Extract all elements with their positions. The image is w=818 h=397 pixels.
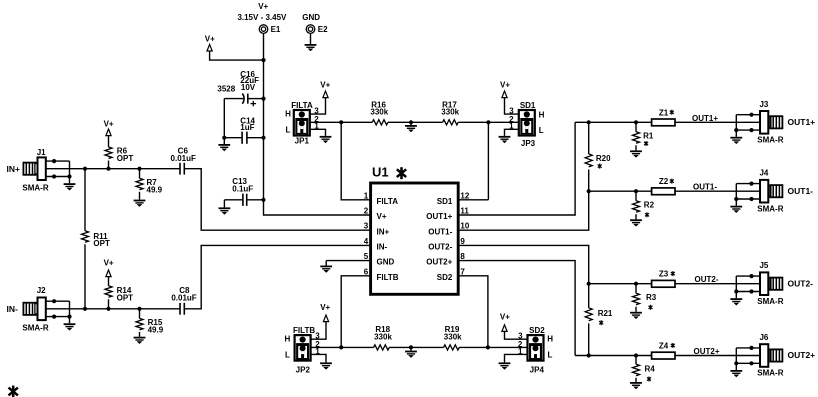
node R6 tap line 1 [106, 167, 110, 171]
wire FILTA node down to chip pin 1 [341, 122, 370, 200]
svg-text:Z2: Z2 [659, 177, 669, 186]
asterisk beside U1 [397, 167, 406, 179]
svg-text:V+: V+ [104, 119, 114, 128]
svg-text:V+: V+ [258, 2, 268, 11]
impedance Z1 [652, 119, 675, 126]
svg-text:3528: 3528 [217, 85, 235, 94]
capacitor C13 [224, 194, 263, 206]
ground below R2 [630, 220, 642, 226]
power symbol V+ above R6 [106, 129, 111, 136]
svg-text:11: 11 [460, 207, 469, 216]
svg-text:SMA-R: SMA-R [757, 369, 783, 378]
ground below JP1 pin 1 [320, 137, 332, 143]
capacitor C14 [224, 132, 263, 144]
resistor R1 [635, 122, 637, 150]
asterisk R3 [649, 305, 653, 310]
svg-text:SD1: SD1 [520, 101, 536, 110]
svg-text:R3: R3 [646, 293, 657, 302]
svg-text:2: 2 [364, 207, 369, 216]
svg-text:V+: V+ [205, 34, 215, 43]
svg-text:0.01uF: 0.01uF [171, 154, 196, 163]
svg-text:FILTB: FILTB [377, 273, 399, 282]
svg-text:OUT2-: OUT2- [428, 243, 452, 252]
resistor R17 [443, 120, 459, 125]
terminal E1 [259, 25, 268, 34]
node R3 top [634, 282, 638, 286]
node SD1 [486, 120, 490, 124]
asterisk R4 [647, 377, 651, 382]
svg-text:L: L [539, 126, 544, 135]
node mid ground tap top row [409, 120, 413, 124]
asterisk Z4 [671, 343, 675, 348]
svg-text:9: 9 [460, 237, 465, 246]
resistor R11 [84, 169, 86, 309]
wire V+ rail from E1 down to chip pin 2 [264, 33, 371, 215]
node R11 tap line 2 [83, 307, 87, 311]
svg-text:JP4: JP4 [530, 365, 545, 374]
node R14 tap line 2 [106, 307, 110, 311]
svg-text:R20: R20 [596, 154, 611, 163]
wire R16 to mid ground tap [388, 121, 411, 123]
svg-text:JP1: JP1 [295, 137, 310, 146]
jumper JP4 (mirrored) [528, 335, 544, 361]
ground below C16/C14 branch [218, 145, 230, 151]
connector J1 [23, 157, 75, 190]
svg-text:SD2: SD2 [437, 273, 453, 282]
svg-text:SMA-R: SMA-R [757, 135, 783, 144]
wire JP1 pin 3 to V+ [310, 98, 326, 114]
svg-text:OUT1-: OUT1- [788, 186, 814, 196]
power symbol V+ feeding rail [207, 44, 212, 51]
wire ground tap to R17 [411, 121, 443, 123]
svg-text:J2: J2 [37, 286, 46, 295]
wire OUT1- row [589, 190, 760, 192]
ground below JP4 pin 1 [499, 363, 511, 369]
svg-text:R21: R21 [598, 309, 613, 318]
power symbol V+ above JP1 [323, 91, 328, 98]
power symbol V+ above JP3 [502, 91, 507, 98]
svg-text:JP3: JP3 [521, 139, 536, 148]
ground at pin 5 [320, 266, 332, 272]
wire JP4 pin 2 to SD2 node [488, 346, 528, 348]
wire E2 to ground [310, 33, 312, 44]
ground between R16 R17 [405, 126, 417, 132]
asterisk R1 [644, 141, 648, 146]
svg-text:7: 7 [460, 267, 465, 276]
asterisk R2 [645, 212, 649, 217]
svg-text:OUT1+: OUT1+ [788, 117, 816, 127]
svg-text:3: 3 [364, 222, 369, 231]
svg-text:10V: 10V [241, 83, 256, 92]
svg-text:4: 4 [364, 237, 369, 246]
wire chip pin 10 up to OUT1- row [458, 191, 589, 230]
svg-text:E2: E2 [318, 25, 328, 34]
svg-text:V+: V+ [500, 81, 510, 90]
wire OUT2- row [589, 283, 760, 285]
resistor R3 [635, 284, 637, 312]
resistor R6 [108, 136, 110, 169]
node R2 top [634, 189, 638, 193]
resistor R21 [588, 284, 590, 356]
impedance Z2 [652, 188, 675, 195]
svg-text:U1: U1 [372, 164, 389, 179]
svg-text:1: 1 [364, 191, 369, 200]
wire SD1 node down to chip pin 12 [458, 122, 488, 200]
op-amp U1 body [371, 183, 459, 294]
svg-text:OPT: OPT [117, 154, 134, 163]
power symbol V+ above R14 [106, 270, 111, 277]
resistor R19 [444, 345, 460, 350]
wire FILTB node to R18 [341, 346, 373, 348]
wire JP3 pin 1 to ground [505, 129, 519, 136]
svg-text:OUT2+: OUT2+ [693, 347, 719, 356]
capacitor C8 [180, 303, 184, 315]
svg-text:8: 8 [460, 252, 465, 261]
node C14 left branch [222, 136, 226, 140]
jumper JP1 [294, 110, 310, 136]
capacitor C6 [180, 163, 184, 175]
svg-text:6: 6 [364, 267, 369, 276]
svg-text:SMA-R: SMA-R [757, 297, 783, 306]
power symbol V+ above JP2 [323, 315, 328, 322]
svg-text:J6: J6 [759, 333, 768, 342]
impedance Z3 [652, 280, 675, 287]
wire chip pin 8 down to OUT2+ row [458, 261, 575, 356]
resistor R18 [374, 345, 390, 350]
wire JP4 pin 3 to V+ [505, 332, 528, 339]
node C13 at V+ rail [261, 198, 265, 202]
svg-text:SD2: SD2 [529, 326, 545, 335]
svg-text:J3: J3 [759, 100, 768, 109]
ground below R3 [630, 313, 642, 319]
svg-text:IN-: IN- [7, 304, 19, 314]
node FILTA [339, 120, 343, 124]
asterisk Z3 [671, 271, 675, 276]
svg-text:GND: GND [377, 258, 395, 267]
svg-text:GND: GND [302, 13, 320, 22]
node SD2 [486, 345, 490, 349]
capacitor C16 (polarized) [224, 93, 263, 106]
wire FILTA node to R16 [341, 121, 372, 123]
asterisk Z1 [670, 110, 674, 115]
wire input line 2 [46, 245, 371, 308]
svg-text:H: H [285, 335, 291, 344]
svg-text:Z3: Z3 [659, 270, 669, 279]
wire V+ arrow to rail [210, 51, 264, 60]
svg-text:FILTB: FILTB [293, 326, 315, 335]
ground below E2 [305, 45, 317, 51]
svg-text:OUT1+: OUT1+ [426, 212, 452, 221]
wire JP1 pin 2 to FILTA node [310, 121, 341, 123]
svg-text:R4: R4 [645, 365, 656, 374]
node FILTB [339, 345, 343, 349]
resistor R16 [372, 120, 388, 125]
wire chip pin 11 up to OUT1+ row [458, 122, 575, 215]
ground below R7 [134, 201, 146, 207]
resistor R15 [139, 309, 141, 337]
wire JP3 pin 3 to V+ [505, 98, 519, 114]
wire C16/C14 left branch to ground [223, 99, 225, 144]
svg-text:330k: 330k [444, 333, 462, 342]
svg-text:L: L [286, 126, 291, 135]
node R20 top [587, 120, 591, 124]
ground below JP2 pin 1 [320, 363, 332, 369]
node V+ rail / arrow junction [261, 58, 265, 62]
svg-text:V+: V+ [320, 303, 330, 312]
svg-text:1uF: 1uF [240, 123, 254, 132]
resistor R4 [635, 356, 637, 383]
wire input line 1 [46, 169, 371, 231]
svg-text:OUT2-: OUT2- [695, 275, 719, 284]
svg-text:FILTA: FILTA [377, 197, 399, 206]
node R20 bottom [587, 189, 591, 193]
connector J3 [730, 111, 782, 144]
svg-text:L: L [285, 351, 290, 360]
wire bottom ground tap stem [410, 347, 412, 350]
svg-text:5: 5 [364, 252, 369, 261]
ground below JP3 pin 1 [499, 137, 511, 143]
svg-text:330k: 330k [370, 108, 388, 117]
connector J4 [730, 180, 782, 213]
svg-text:V+: V+ [104, 259, 114, 268]
impedance Z4 [652, 352, 675, 359]
connector J5 [730, 272, 782, 305]
node R1 top [634, 120, 638, 124]
svg-text:R2: R2 [644, 200, 655, 209]
wire JP1 pin 1 to ground [310, 129, 326, 136]
ground below C13 [219, 208, 231, 214]
terminal E2 [306, 25, 315, 34]
power symbol V+ above JP4 [502, 325, 507, 332]
svg-text:12: 12 [460, 191, 469, 200]
connector J2 [23, 298, 75, 331]
asterisk Z2 [670, 179, 674, 184]
node mid ground tap bottom row [409, 345, 413, 349]
svg-text:OPT: OPT [93, 239, 110, 248]
svg-text:0.1uF: 0.1uF [232, 184, 253, 193]
jumper JP3 (mirrored) [519, 110, 535, 136]
wire GND stem [325, 261, 327, 266]
svg-text:OUT1+: OUT1+ [692, 114, 718, 123]
ground below R15 [134, 338, 146, 344]
wire R19 to SD2 node [459, 346, 488, 348]
jumper JP2 [295, 335, 311, 361]
svg-text:JP2: JP2 [296, 365, 311, 374]
wire R17 to SD1 node [458, 121, 488, 123]
wire chip pin 9 down to OUT2- row [458, 245, 589, 283]
wire JP2 pin 2 to FILTB node [311, 346, 342, 348]
svg-text:OUT2+: OUT2+ [788, 350, 816, 360]
wire C13 left to ground [223, 200, 225, 208]
svg-text:IN+: IN+ [377, 227, 390, 236]
svg-text:330k: 330k [374, 333, 392, 342]
node R21 top [587, 282, 591, 286]
asterisk R20 [598, 164, 602, 169]
connector J6 [730, 344, 782, 377]
wire JP3 pin 2 to SD1 node [488, 121, 518, 123]
svg-text:SMA-R: SMA-R [22, 323, 48, 332]
wire JP4 pin 1 to ground [505, 354, 528, 362]
svg-text:J5: J5 [759, 261, 768, 270]
svg-text:H: H [285, 109, 291, 118]
svg-text:OUT2+: OUT2+ [426, 258, 452, 267]
svg-text:H: H [539, 110, 545, 119]
node R7 tap line 1 [137, 167, 141, 171]
svg-text:OUT1-: OUT1- [428, 227, 452, 236]
svg-text:E1: E1 [271, 25, 281, 34]
svg-text:3.15V - 3.45V: 3.15V - 3.45V [237, 13, 287, 22]
asterisk R21 [599, 320, 603, 325]
svg-text:J1: J1 [37, 148, 46, 157]
node C14 at V+ rail [261, 136, 265, 140]
resistor R7 [139, 169, 141, 200]
svg-text:49.9: 49.9 [148, 326, 164, 335]
node R15 tap line 2 [137, 307, 141, 311]
svg-text:H: H [547, 335, 553, 344]
big asterisk bottom left [9, 386, 18, 397]
svg-text:IN+: IN+ [7, 164, 21, 174]
wire ground tap stem [410, 122, 412, 125]
ground below R4 [630, 383, 642, 389]
svg-text:FILTA: FILTA [291, 101, 313, 110]
wire FILTB node up to chip pin 6 [341, 276, 370, 348]
resistor R14 [108, 277, 110, 309]
svg-text:V+: V+ [320, 81, 330, 90]
svg-text:Z4: Z4 [659, 342, 669, 351]
ground below R1 [630, 151, 642, 157]
svg-text:Z1: Z1 [659, 108, 669, 117]
svg-text:J4: J4 [759, 169, 768, 178]
wire R18 to mid ground tap [389, 346, 411, 348]
svg-text:49.9: 49.9 [147, 185, 163, 194]
svg-text:IN-: IN- [377, 243, 388, 252]
wire OUT2+ row [575, 355, 760, 357]
svg-text:SMA-R: SMA-R [22, 183, 48, 192]
node R11 tap line 1 [83, 167, 87, 171]
svg-text:0.01uF: 0.01uF [171, 293, 196, 302]
wire pin 5 GND [326, 260, 370, 262]
node C16 at V+ rail [261, 97, 265, 101]
wire JP2 pin 3 to V+ [311, 322, 326, 339]
svg-text:OUT1-: OUT1- [693, 183, 717, 192]
wire SD2 node up to chip pin 7 [458, 276, 488, 348]
svg-text:V+: V+ [377, 212, 387, 221]
ground between R18 R19 [405, 352, 417, 358]
svg-text:10: 10 [460, 222, 469, 231]
svg-text:SMA-R: SMA-R [757, 204, 783, 213]
wire OUT1+ row [575, 121, 760, 123]
svg-text:R1: R1 [643, 132, 654, 141]
resistor R2 [635, 191, 637, 219]
resistor R20 [588, 122, 590, 191]
wire JP2 pin 1 to ground [311, 354, 326, 362]
node R4 top [634, 353, 638, 357]
svg-text:L: L [548, 351, 553, 360]
wire ground tap to R19 [411, 346, 444, 348]
node R21 bottom [587, 353, 591, 357]
svg-text:330k: 330k [441, 108, 459, 117]
svg-text:OUT2-: OUT2- [788, 278, 814, 288]
svg-text:V+: V+ [500, 313, 510, 322]
svg-text:OPT: OPT [117, 293, 134, 302]
svg-text:SD1: SD1 [437, 197, 453, 206]
